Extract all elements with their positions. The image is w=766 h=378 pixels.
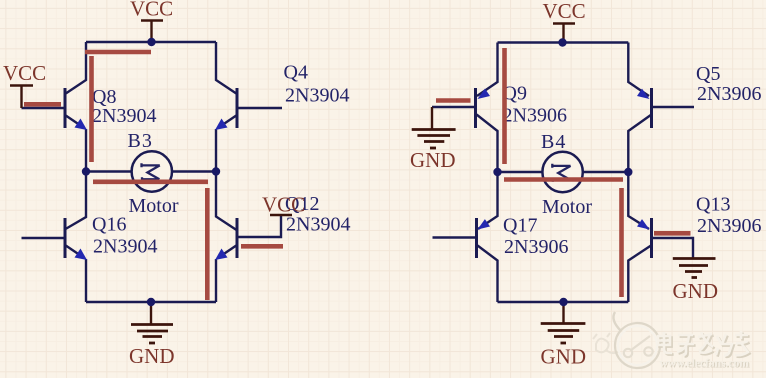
wire Q17 base (433, 236, 477, 238)
svg-text:Motor: Motor (129, 195, 179, 217)
power port VCC (top of left bridge) (130, 0, 173, 42)
wire left vertical lower (motor rail to Q17 emitter) (478, 172, 498, 229)
wire left vertical mid (Q9 collector to motor rail) (477, 115, 498, 173)
red highlight right vertical (right bridge) (619, 188, 624, 297)
svg-text:Q4: Q4 (284, 62, 308, 84)
node junction motor rail left (82, 167, 90, 175)
transistor Q16 (65, 218, 87, 260)
transistor Q17 (477, 218, 491, 258)
svg-text:VCC: VCC (262, 193, 305, 217)
wire left vertical bottom (Q16 emitter to bottom rail) (85, 259, 87, 302)
node junction top right bridge (558, 38, 566, 46)
svg-text:VCC: VCC (3, 61, 46, 85)
wire right vertical bottom (Q13 collector to bottom rail) (628, 246, 651, 303)
svg-text:GND: GND (410, 148, 456, 172)
wire Q5 base (652, 106, 695, 108)
wire left vertical bottom (Q17 collector to bottom rail) (478, 246, 498, 303)
svg-text:2N3906: 2N3906 (504, 236, 568, 258)
transistor Q12 (215, 218, 237, 260)
wire right vertical top (Q5 emitter) (628, 43, 649, 97)
svg-text:Q16: Q16 (92, 214, 126, 236)
wire right vertical lower (motor rail to Q12 collector) (216, 172, 237, 231)
wire right vertical mid (Q4 emitter to motor rail) (215, 129, 217, 172)
wire left vertical lower (motor rail to Q16 collector) (66, 172, 87, 230)
wire left vertical top (Q8 collector) (65, 42, 86, 94)
power port GND (Q9 base) (410, 107, 456, 172)
power port VCC (Q8 base) (3, 61, 46, 108)
svg-text:Motor: Motor (542, 196, 592, 218)
transistor Q9 (476, 88, 491, 128)
svg-text:2N3906: 2N3906 (697, 215, 761, 237)
node junction bottom right bridge (559, 298, 567, 306)
node junction motor rail left (right bridge) (493, 168, 501, 176)
wire motor rail right segment (172, 170, 217, 172)
motor B3 (132, 151, 172, 191)
svg-text:Q13: Q13 (696, 194, 730, 216)
svg-text:VCC: VCC (543, 0, 586, 23)
transistor Q8 (65, 88, 87, 130)
svg-text:2N3906: 2N3906 (503, 105, 567, 127)
svg-text:GND: GND (541, 345, 587, 369)
svg-text:2N3904: 2N3904 (285, 85, 349, 107)
wire right vertical top (Q4 collector) (216, 42, 237, 94)
red highlight Q13 base wire (654, 231, 691, 236)
node junction motor rail right (212, 167, 220, 175)
red highlight motor rail (right bridge) (504, 177, 623, 182)
red highlight left vertical (left bridge) (89, 56, 94, 162)
wire motor rail left segment (right bridge) (498, 171, 544, 173)
node junction top left bridge (147, 38, 155, 46)
wire top rail left bridge (86, 41, 216, 43)
power port VCC (top of right bridge) (543, 0, 586, 43)
svg-text:www.elecfans.com: www.elecfans.com (660, 358, 750, 370)
svg-text:Q5: Q5 (696, 63, 720, 85)
svg-text:B3: B3 (128, 130, 153, 152)
transistor Q5 (637, 88, 652, 128)
wire Q9 base (432, 106, 476, 108)
wire Q12 base to VCC stub (237, 215, 281, 237)
power port GND (bottom of right bridge) (541, 302, 587, 369)
svg-text:VCC: VCC (130, 0, 173, 21)
motor B4 (542, 152, 582, 192)
watermark logo circle (elecfans) (613, 312, 660, 368)
svg-text:2N3904: 2N3904 (92, 105, 156, 127)
svg-text:GND: GND (673, 279, 719, 303)
wire left vertical mid (Q8 emitter to motor rail) (85, 129, 87, 172)
wire Q13 base to GND stub (652, 238, 694, 258)
transistor Q4 (215, 88, 237, 130)
wire right vertical bottom (Q12 emitter to bottom rail) (215, 259, 217, 302)
wire motor rail right segment (right bridge) (583, 171, 629, 173)
watermark text elecfans chinese (vector strokes, embossed) (660, 333, 750, 357)
wire Q8 base (22, 107, 66, 109)
red highlight Q9 base wire (436, 98, 471, 103)
wire Q4 base (237, 107, 282, 109)
svg-text:GND: GND (129, 344, 175, 368)
power port GND (Q13 base) (673, 259, 719, 304)
red highlight motor rail (left bridge) (93, 180, 208, 185)
node junction motor rail right (right bridge) (624, 168, 632, 176)
wire right vertical mid (Q5 collector to motor rail) (628, 115, 651, 173)
svg-text:2N3906: 2N3906 (697, 83, 761, 105)
transistor Q13 (637, 218, 652, 258)
wire right vertical lower (motor rail to Q13 emitter) (628, 172, 649, 229)
svg-text:B4: B4 (541, 131, 566, 153)
wire left vertical top (Q9 emitter) (477, 43, 498, 97)
power port VCC (Q12 base) (262, 193, 305, 217)
red highlight left vertical (right bridge) (502, 48, 507, 164)
red highlight right vertical (left bridge) (205, 188, 210, 300)
wire bottom rail right bridge (498, 301, 629, 303)
svg-text:2N3904: 2N3904 (93, 236, 157, 258)
wire bottom rail left bridge (86, 301, 216, 303)
wire motor rail left segment (86, 170, 132, 172)
red highlight Q12 base wire (241, 244, 283, 249)
wire top rail right bridge (498, 41, 629, 43)
power port GND (bottom of left bridge) (129, 302, 175, 368)
svg-text:2N3904: 2N3904 (286, 214, 350, 236)
svg-text:Q17: Q17 (503, 215, 537, 237)
red highlight top rail (left bridge) (85, 50, 151, 55)
red highlight Q8 base wire (24, 102, 61, 107)
wire Q16 base (22, 237, 66, 239)
watermark doodle (faint outline sketch) (593, 333, 618, 353)
node junction bottom left bridge (147, 298, 155, 306)
